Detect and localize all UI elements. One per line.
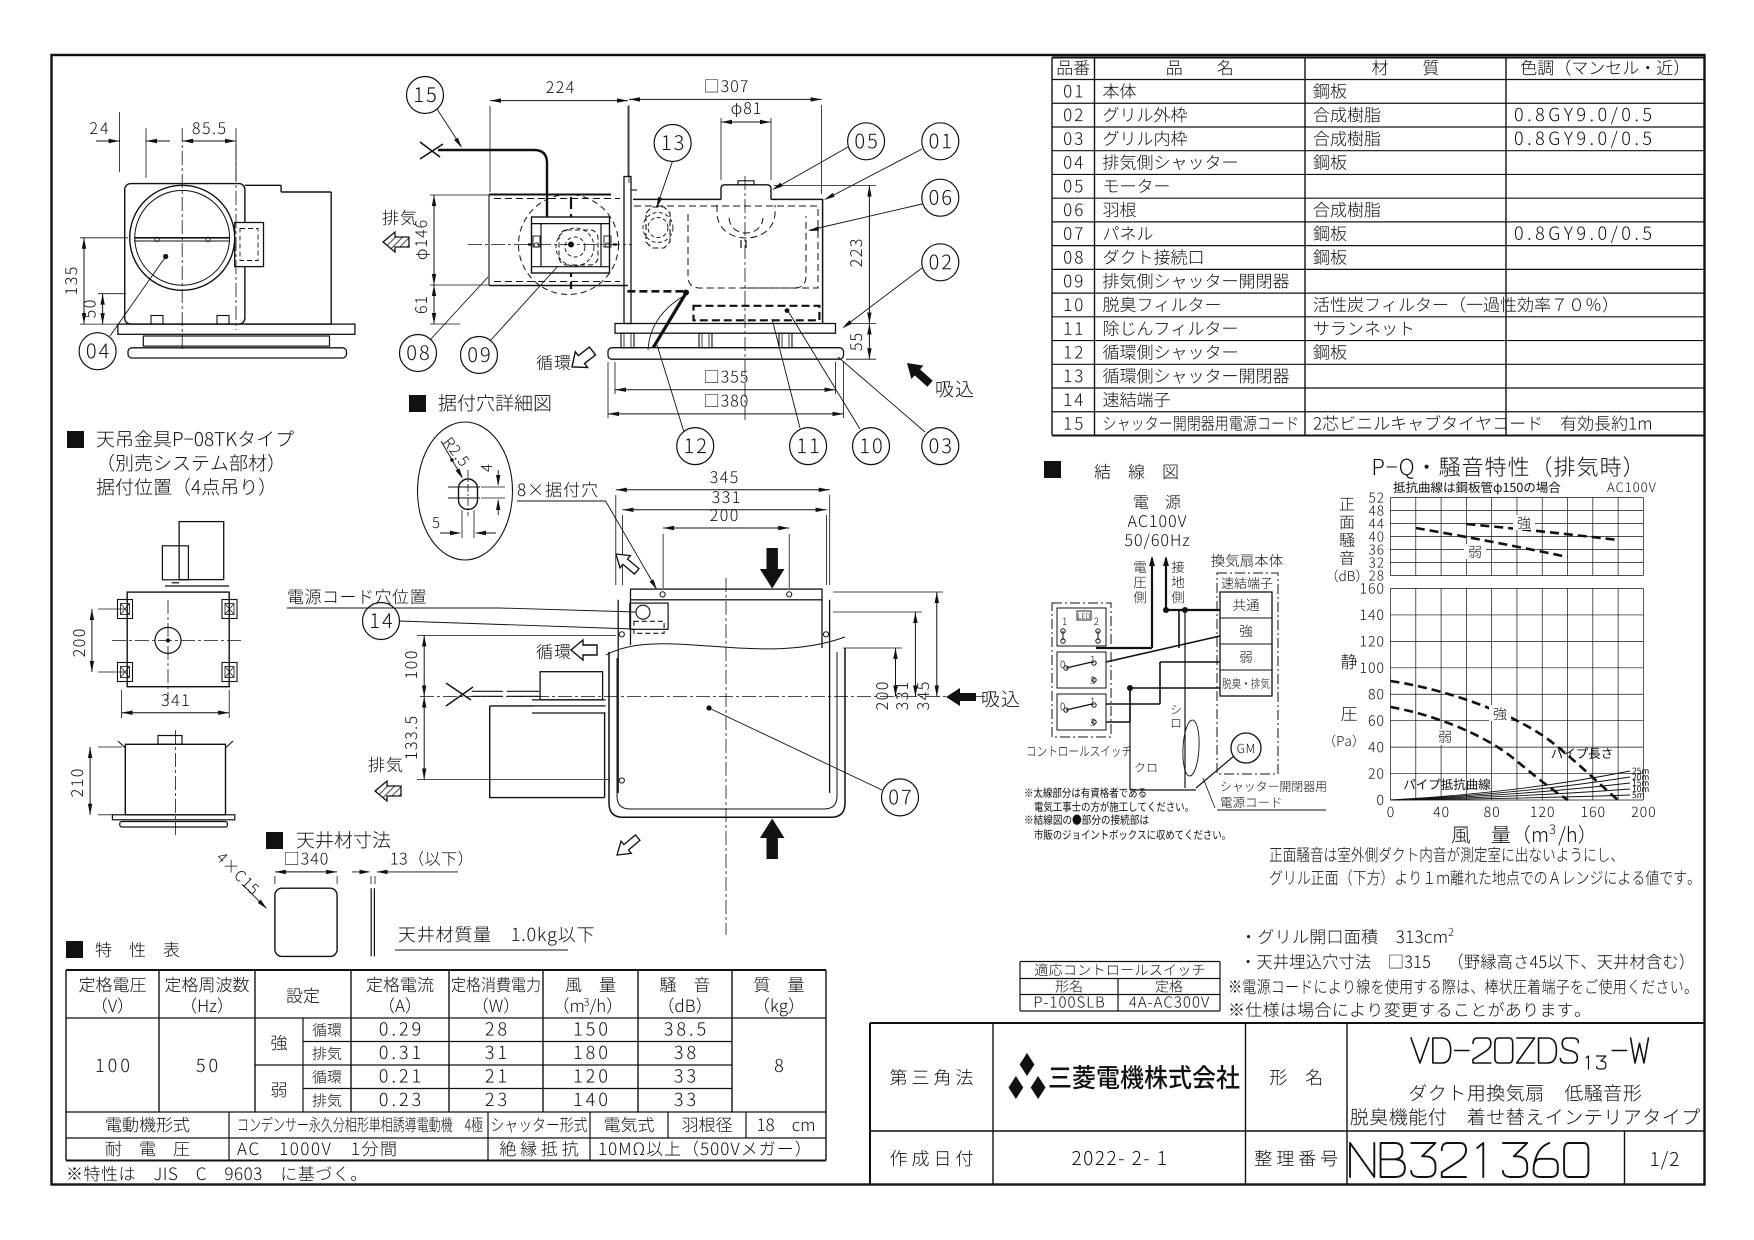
side view panel (128, 348, 347, 358)
detail dim 5 (461, 510, 463, 538)
Pa axis label (1341, 654, 1357, 669)
bottom view heading label (288, 589, 425, 605)
detail heading (409, 395, 426, 412)
bottom flow arrows bottom (760, 819, 785, 860)
panel wave break line (606, 637, 845, 655)
ceiling weight note (399, 926, 594, 946)
motor centerlines (468, 244, 632, 246)
detail hole obround (459, 479, 478, 510)
ceiling board (370, 888, 372, 956)
circulation white arrow (566, 343, 599, 375)
mount side view (125, 744, 225, 815)
spec table (66, 969, 826, 971)
dim 200 bottom (662, 534, 664, 588)
bell mouth dashed (717, 205, 775, 238)
callout 02 (922, 244, 959, 281)
dB axis label (1340, 498, 1354, 511)
voltage side label (1134, 561, 1146, 572)
callout 06 (922, 179, 959, 216)
callout 03 (922, 428, 959, 465)
side view spacer (143, 336, 329, 346)
PQ chart title (1374, 456, 1629, 479)
power cord hole box (630, 603, 668, 629)
panel outline (609, 648, 845, 817)
control switch table (1020, 961, 1220, 963)
mount top duct stub (162, 546, 188, 580)
title block (870, 1022, 1705, 1024)
ceiling heading (266, 832, 283, 849)
callout 13 (654, 125, 691, 162)
side view rear body (245, 184, 281, 186)
GM motor (1231, 733, 1261, 763)
callout 08 (400, 335, 437, 372)
callout 09 (461, 337, 498, 374)
callout 07 leader (706, 705, 711, 710)
power cord (438, 150, 547, 218)
chart note (1270, 847, 1615, 863)
callout 01 (922, 123, 959, 160)
circulation label (536, 355, 570, 370)
wiring heading 結線図 (1044, 461, 1061, 478)
Pa curves strong/weak (1391, 681, 1619, 800)
shutter cord label (1221, 781, 1325, 792)
mounting hole label (518, 482, 598, 498)
fan scroll dashed circle (519, 195, 619, 295)
dim 200 mount (98, 608, 124, 610)
dim 210 (98, 746, 122, 748)
callout 03 leader (838, 357, 925, 432)
callout 06 leader (810, 204, 922, 230)
side view body (125, 184, 245, 325)
mount centerlines (112, 639, 243, 641)
Mitsubishi company name (1050, 1065, 1240, 1089)
center vertical axis (744, 176, 746, 422)
Pa panel grid (1390, 589, 1392, 801)
switch internals (1057, 608, 1106, 646)
main body outline (633, 199, 823, 323)
ceiling square (275, 888, 337, 956)
exhaust duct (489, 194, 611, 196)
4xC15 label (216, 851, 260, 895)
hangers (621, 333, 634, 348)
dim 24 (119, 112, 121, 172)
callout 11 leader (772, 319, 800, 428)
detail dim 4 (481, 486, 505, 488)
callout 01 leader (826, 149, 922, 199)
suction arrow top (901, 356, 936, 390)
wiring lines (1151, 580, 1153, 648)
dim 100 left (417, 634, 616, 636)
exhaust label bottom view (369, 757, 403, 773)
mount corner brackets (118, 600, 133, 619)
motor assembly (532, 217, 610, 273)
callout 10 leader (788, 311, 860, 429)
callout 12 leader (657, 345, 684, 432)
power source label (1134, 495, 1180, 509)
dim phi81 (720, 118, 722, 180)
dim 61 (430, 323, 460, 325)
dim 340 (274, 876, 276, 884)
callout 11 (790, 428, 827, 465)
model name VD-20ZDS13-W (1411, 1038, 1578, 1063)
motor type row (66, 1137, 826, 1139)
bottom view top strip (631, 589, 823, 600)
bottom motor box (540, 672, 603, 700)
mount center circle (155, 627, 181, 653)
circulation shutter (627, 290, 685, 293)
side view flange plate (118, 324, 355, 334)
deodorizing filter dashed (694, 306, 820, 321)
scroll casing dashed (688, 214, 806, 288)
bottom view body sides (617, 600, 619, 793)
dB panel grid (1390, 498, 1392, 576)
motor hump (721, 185, 771, 200)
callout 15 (407, 77, 444, 114)
bottom view cord (472, 690, 503, 692)
callout 04 (79, 333, 116, 370)
exhaust hatched arrow (383, 232, 409, 252)
mount side flange (112, 815, 234, 820)
JIS note (68, 1166, 356, 1181)
dim phi146 (430, 194, 489, 196)
dim 133.5 left (417, 779, 610, 781)
body left flange (624, 177, 631, 324)
dim 224 (489, 106, 491, 192)
callout 02 leader (844, 268, 922, 327)
dB curves (1466, 524, 1618, 540)
parts list table (1052, 57, 1705, 59)
shutter motor octagon (646, 207, 670, 248)
suction arrow bottom view (946, 688, 976, 706)
callout 10 (853, 428, 890, 465)
callout 09 leader (490, 266, 558, 341)
side view feet (151, 316, 163, 325)
terminal block (1220, 592, 1272, 696)
document number NB321360 (1350, 1143, 1588, 1177)
callout 13 leader (657, 161, 673, 206)
dim 13 (370, 876, 372, 884)
hanging bracket heading (67, 431, 84, 448)
wiring notes (1025, 787, 1145, 798)
side view duct circle inner (135, 190, 230, 285)
callout 12 (677, 428, 714, 465)
R2.5 label (443, 437, 470, 467)
mounting plate 355 (615, 324, 836, 334)
dim 331 bottom (622, 515, 624, 585)
power arrows (1151, 558, 1153, 580)
duct center marks (528, 243, 617, 245)
body inner liner dashed (634, 206, 818, 288)
dim 135 (80, 237, 128, 239)
dim 345 bottom (615, 495, 617, 585)
shutter leader dot (163, 254, 168, 259)
fan body dashed box (1217, 573, 1278, 774)
x axis labels (1387, 807, 1393, 818)
dim 50 (98, 293, 126, 295)
shutter shaft line (134, 237, 230, 239)
bottom duct box (490, 706, 605, 798)
callout 08 leader (430, 277, 488, 340)
bottom view centerlines (725, 578, 727, 935)
dim 55 (846, 358, 876, 360)
callout 05 leader (774, 147, 848, 189)
mount top view body (127, 592, 229, 687)
circulation label bottom view (536, 644, 570, 659)
side view centerline (181, 128, 183, 352)
callout 07 (882, 779, 919, 816)
Mitsubishi logo three diamonds (1020, 1053, 1035, 1076)
bottom flow arrows top (760, 548, 785, 589)
spec table heading 特性表 (66, 941, 83, 958)
dim 307 (628, 105, 630, 183)
side view duct circle outer (130, 185, 235, 290)
dim 85.5 (235, 128, 237, 180)
callout 04 leader (110, 257, 166, 337)
callout 05 (848, 123, 885, 160)
dim 341 (121, 690, 123, 718)
dim 200 331 345 right side (833, 611, 922, 613)
dim 223 (774, 185, 876, 187)
grille panel 380 (608, 348, 844, 360)
dim 355 (614, 362, 616, 394)
control switch dashed box (1052, 603, 1111, 737)
detail balloon (418, 422, 513, 560)
side motor box (235, 223, 264, 267)
dim 380 (607, 362, 609, 418)
exhaust label (383, 210, 417, 226)
callout 14 (363, 603, 400, 640)
grille notes (1247, 929, 1447, 945)
pipe resistance curves (1391, 771, 1631, 800)
